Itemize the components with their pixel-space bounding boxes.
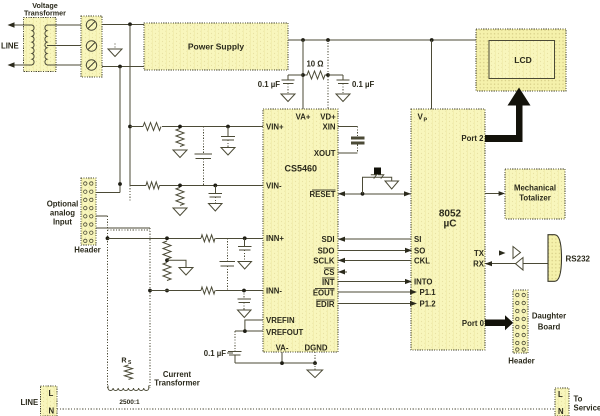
- svg-text:Transformer: Transformer: [24, 9, 66, 18]
- svg-text:VREFOUT: VREFOUT: [266, 328, 303, 337]
- node: [242, 289, 246, 293]
- ground (DGND): [314, 363, 316, 370]
- screw terminal 1: [86, 20, 96, 30]
- svg-text:RESET: RESET: [310, 190, 336, 199]
- optional analog input header: [81, 178, 96, 245]
- svg-text:LCD: LCD: [514, 55, 531, 65]
- header pin circles (daughter header): [516, 293, 526, 351]
- wire header row3 to CT box: [96, 227, 150, 229]
- terminal block J1: [81, 16, 102, 77]
- svg-text:Header: Header: [508, 357, 534, 366]
- svg-text:Mechanical: Mechanical: [514, 184, 556, 193]
- wire EDIR to P1.2: [338, 303, 411, 305]
- svg-text:P1.1: P1.1: [420, 288, 437, 297]
- wire INT to INTO: [338, 281, 411, 283]
- wire terminal block to power supply (bottom): [102, 66, 144, 68]
- wire line B from top terminal row down: [129, 24, 131, 185]
- svg-text:VD+: VD+: [320, 113, 336, 122]
- wire VA- drop: [281, 352, 283, 363]
- svg-text:L: L: [49, 389, 54, 398]
- svg-text:Optional: Optional: [47, 200, 79, 209]
- resistor 10 ohm: [303, 71, 329, 79]
- svg-text:Daughter: Daughter: [532, 312, 566, 321]
- reset supply component: [374, 168, 381, 175]
- wire Vp column: [431, 40, 433, 109]
- wire terminal block to power supply (top): [102, 23, 144, 25]
- screw terminal 2: [86, 41, 96, 51]
- transformer T1 secondary winding: [45, 25, 47, 65]
- wire DGND drop: [314, 352, 316, 363]
- wire LINE to primary top: [13, 24, 32, 26]
- Port 0 bus arrow to daughter header: [485, 320, 505, 326]
- svg-text:INT: INT: [322, 278, 335, 287]
- svg-text:SDO: SDO: [318, 246, 335, 255]
- svg-text:TX: TX: [474, 249, 485, 258]
- ground (reset): [385, 181, 399, 189]
- svg-text:Totalizer: Totalizer: [519, 194, 550, 203]
- node: [178, 184, 182, 188]
- ground: [173, 208, 187, 216]
- reset supply branch: [363, 177, 392, 194]
- wire secondary bottom to terminal block: [47, 64, 81, 66]
- svg-text:P1.2: P1.2: [420, 300, 437, 309]
- wire VIN- row: [130, 184, 146, 186]
- svg-text:0.1 µF: 0.1 µF: [352, 80, 374, 89]
- svg-text:10 Ω: 10 Ω: [306, 60, 323, 69]
- svg-text:EOUT: EOUT: [313, 288, 335, 297]
- wire VREFOUT: [235, 330, 263, 332]
- wire SCLK: [338, 259, 411, 261]
- screw terminal 3: [86, 60, 96, 70]
- svg-text:Header: Header: [74, 246, 100, 255]
- node: [213, 184, 217, 188]
- svg-text:µC: µC: [444, 219, 457, 230]
- IC CS5460: [263, 109, 338, 352]
- node VA+ on rail: [301, 38, 305, 42]
- resistor (VIN- series): [146, 182, 160, 189]
- svg-text:INN+: INN+: [266, 234, 284, 243]
- wire INN- row: [150, 290, 201, 292]
- node VD+ on rail: [326, 38, 330, 42]
- ground (right 0.1uF): [336, 94, 350, 102]
- wire header row2 to CT box: [96, 215, 108, 217]
- svg-text:VA-: VA-: [276, 344, 289, 353]
- svg-text:SCLK: SCLK: [313, 256, 335, 265]
- header pin circles (optional header): [84, 182, 93, 243]
- capacitor to ground (VIN+): [227, 127, 229, 137]
- wire VA-/DGND bottom: [235, 362, 315, 364]
- wire INN+ row: [108, 237, 202, 239]
- capacitor INN+ to INN-: [226, 238, 228, 261]
- current transformer secondary coil: [108, 386, 149, 391]
- ground: [209, 204, 223, 212]
- TX buffer: [513, 247, 521, 259]
- svg-text:EDIR: EDIR: [316, 300, 335, 309]
- capacitor to ground (INN-): [243, 291, 245, 299]
- svg-text:XIN: XIN: [323, 123, 336, 132]
- svg-text:CS5460: CS5460: [285, 164, 318, 174]
- Mechanical Totalizer box: [505, 169, 565, 219]
- wire main V+ rail: [288, 39, 476, 41]
- node Vp on rail: [430, 38, 434, 42]
- ground: [238, 310, 252, 318]
- svg-text:SO: SO: [414, 246, 425, 255]
- svg-text:Service: Service: [574, 404, 600, 413]
- divider node: [165, 236, 169, 240]
- transformer T1 primary winding: [32, 25, 34, 65]
- ground (near terminal block): [114, 44, 116, 50]
- svg-text:2500:1: 2500:1: [119, 399, 140, 406]
- wire 8052 to totalizer: [485, 193, 503, 195]
- crystal Y1 wires XIN/XOUT: [338, 126, 358, 128]
- wire secondary center tap to terminal block: [47, 45, 81, 47]
- wire VD+ column: [327, 40, 329, 109]
- node: [226, 125, 230, 129]
- TX arrowhead: [499, 250, 506, 255]
- svg-text:Transformer: Transformer: [154, 379, 200, 388]
- svg-text:Port 0: Port 0: [462, 319, 485, 328]
- svg-text:Power Supply: Power Supply: [188, 42, 244, 52]
- divider tap to ground: [167, 260, 186, 267]
- wire LINE to primary bottom: [13, 64, 32, 66]
- node on CT left edge: [106, 236, 110, 240]
- power supply box: [144, 23, 288, 70]
- svg-text:DGND: DGND: [305, 344, 328, 353]
- daughter board header: [513, 290, 528, 353]
- node on CT right edge: [148, 289, 152, 293]
- svg-text:N: N: [49, 407, 55, 416]
- svg-text:CKL: CKL: [414, 256, 430, 265]
- svg-text:To: To: [574, 395, 583, 404]
- voltage transformer T1 box: [24, 18, 57, 72]
- resistor to ground (VIN-): [176, 187, 184, 205]
- wire SDO: [338, 249, 411, 251]
- ground: [173, 150, 187, 158]
- wire VREFIN: [245, 320, 263, 331]
- svg-text:RS232: RS232: [566, 255, 591, 264]
- resistor (INN- series): [201, 287, 215, 294]
- mains L terminal (left): [41, 386, 58, 416]
- svg-text:analog: analog: [50, 209, 75, 218]
- capacitor 0.1uF (right of 10 ohm): [328, 74, 343, 76]
- wire SDI: [338, 238, 411, 240]
- resistor divider lower: [163, 263, 171, 281]
- svg-text:INTO: INTO: [414, 278, 432, 287]
- ground: [221, 148, 235, 156]
- RS232 connector: [548, 235, 562, 282]
- svg-text:XOUT: XOUT: [314, 149, 336, 158]
- svg-text:S: S: [128, 360, 132, 366]
- svg-text:N: N: [558, 407, 564, 416]
- capacitor 0.1uF (VREFOUT): [234, 331, 236, 351]
- svg-text:CS: CS: [324, 268, 335, 277]
- svg-text:SDI: SDI: [322, 235, 335, 244]
- node VIN+ start: [128, 125, 132, 129]
- wire CS stub: [338, 271, 347, 273]
- mains terminal (right): [555, 388, 569, 416]
- svg-text:VIN+: VIN+: [266, 123, 284, 132]
- wire to optional header row1: [96, 191, 120, 193]
- resistor divider upper: [163, 241, 171, 259]
- Port 2 bus arrow to LCD: [485, 135, 523, 142]
- ground (left 0.1uF): [281, 94, 295, 102]
- wire N line: [57, 408, 555, 410]
- wire line A from bottom terminal row down: [119, 67, 121, 193]
- svg-text:LINE: LINE: [21, 398, 39, 407]
- node: [243, 236, 247, 240]
- svg-text:LINE: LINE: [1, 42, 19, 51]
- IC 8052 microcontroller: [411, 109, 485, 350]
- crystal Y1: [351, 137, 365, 140]
- wire secondary top to terminal block: [47, 24, 81, 26]
- svg-text:VIN-: VIN-: [266, 181, 282, 190]
- svg-text:P: P: [424, 118, 428, 124]
- node on bottom wire: [118, 65, 122, 69]
- svg-text:L: L: [558, 390, 563, 399]
- resistor (VIN+ series): [143, 123, 161, 131]
- svg-text:Port 2: Port 2: [461, 134, 484, 143]
- wire VIN+ row: [130, 126, 143, 128]
- capacitor to ground (INN+): [244, 238, 246, 246]
- svg-text:VREFIN: VREFIN: [266, 316, 295, 325]
- svg-text:Board: Board: [538, 323, 561, 332]
- svg-text:0.1 µF: 0.1 µF: [258, 80, 280, 89]
- node: [178, 125, 182, 129]
- svg-text:SI: SI: [414, 235, 421, 244]
- node on top wire: [128, 22, 132, 26]
- wire VA+ column: [302, 40, 304, 109]
- svg-text:VA+: VA+: [296, 113, 311, 122]
- resistor (INN+ series): [201, 235, 215, 242]
- resistor to ground (VIN+): [176, 129, 184, 147]
- svg-text:INN-: INN-: [266, 287, 282, 296]
- LCD module: [476, 29, 566, 91]
- wire RESET: [338, 193, 411, 195]
- wire RX: [523, 263, 548, 265]
- capacitor 0.1uF (left of 10 ohm): [288, 74, 303, 76]
- capacitor VIN+ to VIN-: [202, 127, 204, 154]
- ground: [238, 262, 252, 270]
- svg-text:RX: RX: [473, 260, 485, 269]
- svg-text:R: R: [121, 356, 127, 365]
- wire EOUT to P1.1: [338, 291, 411, 293]
- svg-text:0.1 µF: 0.1 µF: [204, 349, 226, 358]
- svg-text:Input: Input: [53, 218, 72, 227]
- current transformer boundary (dashed): [107, 216, 109, 388]
- capacitor to ground (VIN-): [214, 185, 216, 193]
- RX buffer: [516, 258, 524, 271]
